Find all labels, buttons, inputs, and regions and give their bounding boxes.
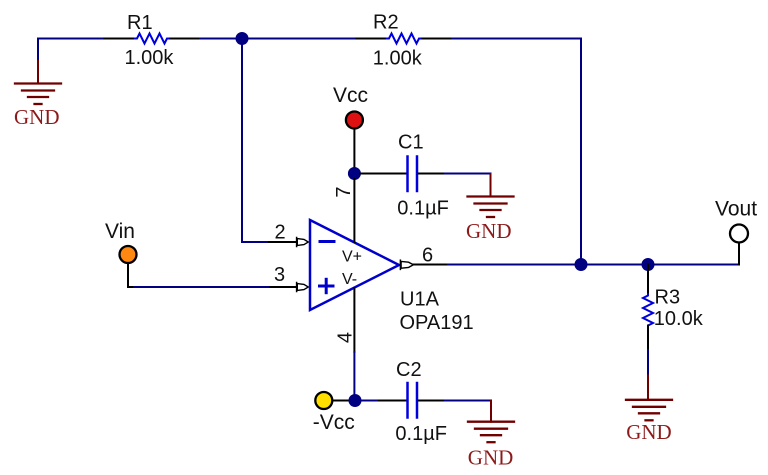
wire R3 top pin black [647, 265, 649, 294]
svg-text:6: 6 [422, 244, 433, 266]
pin 3 arrowhead [297, 283, 309, 292]
svg-text:2: 2 [275, 222, 286, 244]
wire output lead black [413, 264, 448, 266]
svg-text:3: 3 [274, 264, 285, 286]
wire pin4 lower navy [353, 352, 355, 400]
svg-text:C2: C2 [396, 359, 422, 381]
wire Vin drop black [128, 263, 134, 287]
wire R2 right pin black [422, 38, 452, 40]
svg-text:Vcc: Vcc [333, 84, 368, 107]
wire R3 gnd lead red [647, 376, 649, 400]
svg-text:Vout: Vout [715, 198, 757, 221]
svg-text:GND: GND [626, 420, 672, 444]
pin 2 arrowhead [297, 238, 309, 247]
wire C1 to gnd navy [445, 173, 491, 175]
ground GND at C1 [468, 197, 514, 218]
svg-text:0.1µF: 0.1µF [395, 423, 447, 445]
wire top bus right navy [452, 38, 581, 40]
pin 6 arrowhead at apex [400, 260, 413, 269]
svg-text:U1A: U1A [400, 288, 440, 310]
op-amp minus input mark [320, 240, 334, 243]
junction output/R3 [642, 258, 655, 271]
svg-text:R3: R3 [655, 286, 681, 308]
svg-text:OPA191: OPA191 [400, 312, 474, 334]
wire pin3 lead black [270, 286, 296, 288]
port Vout [730, 225, 748, 243]
wire R1 right pin black [170, 38, 200, 40]
junction node A (R1/R2/inverting) [236, 32, 249, 45]
svg-text:R1: R1 [127, 12, 153, 34]
wire C2 left navy [361, 400, 379, 402]
wire output navy [448, 264, 739, 266]
resistor R3 vertical [643, 293, 653, 326]
wire R3 bottom pin black [647, 326, 649, 351]
ground GND at C2 [468, 422, 514, 443]
svg-text:-Vcc: -Vcc [313, 411, 355, 434]
wire R1 left pin black [104, 38, 134, 40]
wire feedback right vertical [580, 39, 582, 265]
wire pin2 lead black [269, 241, 296, 243]
svg-text:Vin: Vin [105, 220, 135, 243]
svg-text:V+: V+ [342, 248, 362, 265]
port Vin [120, 246, 137, 263]
wire C1 right pin black [419, 173, 446, 175]
wire C1 left pin black [360, 173, 406, 175]
junction -Vcc/pin4/C2 [349, 394, 362, 407]
svg-text:GND: GND [468, 446, 514, 470]
wire C1 gnd lead red [490, 174, 492, 197]
port -Vcc [315, 392, 332, 409]
wire pin3 horizontal navy [134, 286, 270, 288]
wire R3 to gnd navy [647, 350, 649, 376]
ground GND left [15, 84, 61, 105]
wire pin2 horizontal navy [242, 241, 269, 243]
wire -Vcc to junction black [333, 400, 350, 402]
capacitor C1 [408, 157, 418, 192]
wire R2 left pin black [356, 38, 386, 40]
svg-text:1.00k: 1.00k [125, 47, 175, 69]
svg-text:7: 7 [333, 187, 355, 198]
wire Vcc drop black [353, 129, 355, 168]
svg-text:R2: R2 [373, 12, 399, 34]
wire left gnd lead red [37, 61, 39, 84]
ground GND under R3 [626, 400, 672, 421]
wire inverting drop [241, 39, 243, 243]
svg-text:10.0k: 10.0k [654, 308, 704, 330]
op-amp plus input mark [320, 279, 334, 292]
wire pin4 vertical black [353, 288, 355, 352]
svg-text:GND: GND [14, 105, 60, 129]
capacitor C2 [408, 383, 418, 418]
junction output/feedback [575, 258, 588, 271]
wire Vout rise black [738, 243, 740, 265]
wire pin7 vertical black [353, 179, 355, 242]
svg-text:C1: C1 [398, 132, 424, 154]
wire C2 right pin black [419, 400, 446, 402]
op-amp U1 triangle [310, 220, 399, 310]
wire top bus middle navy [200, 38, 356, 40]
port Vcc [346, 112, 363, 129]
svg-text:GND: GND [466, 219, 512, 243]
svg-text:0.1µF: 0.1µF [397, 198, 449, 220]
wire C2 to gnd navy [445, 400, 491, 402]
junction Vcc/pin7/C1 [348, 167, 361, 180]
svg-text:4: 4 [335, 332, 357, 343]
wire left gnd drop navy [37, 39, 39, 62]
wire top bus left navy [38, 38, 104, 40]
svg-text:1.00k: 1.00k [373, 48, 423, 70]
wire C2 gnd lead red [490, 401, 492, 422]
svg-text:V-: V- [342, 271, 357, 288]
wire C2 left pin black [379, 400, 406, 402]
resistor R2 [386, 34, 422, 44]
resistor R1 [134, 34, 170, 44]
